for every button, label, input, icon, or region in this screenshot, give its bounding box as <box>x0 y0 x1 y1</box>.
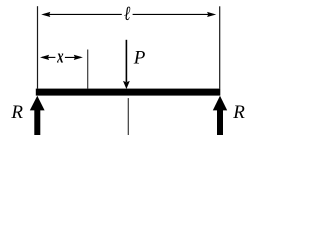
extension line right <box>219 6 221 88</box>
beam <box>36 89 221 96</box>
load arrow P head <box>123 81 130 89</box>
dimension line l left segment <box>44 13 122 15</box>
load arrow P shaft <box>125 40 127 82</box>
label l <box>124 2 131 25</box>
svg-text:ℓ: ℓ <box>124 2 131 25</box>
dimension line x left segment <box>42 56 55 58</box>
svg-text:R: R <box>232 102 245 123</box>
reaction arrow R right shaft <box>217 110 223 136</box>
dimension line l right segment <box>133 13 213 15</box>
arrowhead x right <box>74 55 83 60</box>
svg-text:P: P <box>133 48 146 69</box>
svg-text:R: R <box>10 102 23 123</box>
reaction arrow R left head <box>30 96 45 111</box>
dimension line x right segment <box>65 56 81 58</box>
svg-text:x: x <box>56 45 63 67</box>
label x <box>56 45 63 67</box>
arrowhead l left <box>41 12 50 17</box>
arrowhead x left <box>40 55 49 60</box>
extension line left <box>37 6 39 88</box>
reaction arrow R left shaft <box>34 110 40 136</box>
extension line mid (section at x) <box>87 50 89 89</box>
arrowhead l right <box>207 12 216 17</box>
midspan line below beam <box>127 98 129 135</box>
reaction arrow R right head <box>213 96 227 111</box>
